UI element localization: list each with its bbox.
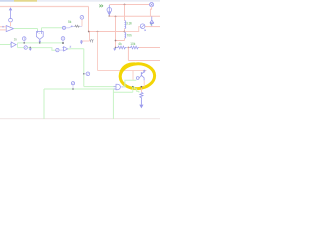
node arrow top xyxy=(81,40,83,42)
probe P4 circle xyxy=(71,82,74,85)
yellow ring overlap tail xyxy=(120,64,135,79)
wire to ground arrow xyxy=(140,99,142,105)
wire C3 to node xyxy=(66,26,72,27)
probe P5 circle xyxy=(86,72,90,76)
node below I2 xyxy=(108,15,110,17)
ammeter C1 xyxy=(24,46,27,49)
wire x89.5 bottom xyxy=(89,32,91,42)
node emitter xyxy=(141,86,143,88)
op-amp B1 pin marks xyxy=(38,30,43,33)
gate G1 body xyxy=(116,84,120,90)
ground arrow bottom xyxy=(139,105,143,109)
node under ring xyxy=(132,86,134,88)
transistor base circle xyxy=(136,77,139,80)
dark glyph eta xyxy=(90,40,93,43)
ground arrow right xyxy=(114,48,116,50)
op-amp A2 marks xyxy=(10,43,11,46)
node rail A end xyxy=(62,42,64,44)
node x88.5 y31.5 xyxy=(88,31,90,33)
ground arrow xyxy=(29,48,31,50)
probe P3 stub xyxy=(62,40,64,43)
wire node to resistor xyxy=(73,25,75,27)
op-amp A2 input wire xyxy=(0,44,11,46)
wire C1 to gnd node xyxy=(27,47,30,49)
wire rail y70.5 xyxy=(98,70,134,72)
wire right vertical x88.5 xyxy=(88,7,90,32)
wire vertical x97.5 xyxy=(97,32,99,71)
wire source to rail16 xyxy=(150,7,151,17)
coil small vertical xyxy=(140,92,143,99)
op-amp A1 input marks xyxy=(2,26,4,28)
wire probe column x82 xyxy=(81,19,83,26)
svg-text:70h: 70h xyxy=(127,33,133,37)
node rail A P2 xyxy=(23,42,25,44)
wire y26.6 xyxy=(145,26,160,28)
wire gate to base xyxy=(123,80,136,87)
wire corner down x44 xyxy=(43,89,45,119)
resistor R2 xyxy=(129,46,139,49)
node dot xyxy=(71,26,73,28)
op-amp A2 xyxy=(11,42,16,47)
label z xyxy=(70,46,72,47)
wire rail B mid xyxy=(31,48,56,51)
node x115.5 y47.5 xyxy=(115,47,117,49)
wire to dark glyph xyxy=(81,40,89,42)
current source I1 arrow xyxy=(9,8,12,19)
wire rail y31.5 xyxy=(89,31,125,33)
svg-text:3.3h: 3.3h xyxy=(126,22,132,26)
yellow highlight ring xyxy=(120,63,156,90)
AC source S2 xyxy=(140,24,145,29)
transistor Q1 xyxy=(141,70,145,81)
label D1 green tick xyxy=(150,24,151,26)
transistor emitter lead xyxy=(143,81,145,87)
svg-text:1k: 1k xyxy=(14,38,18,42)
wire box leg2 up xyxy=(42,28,63,31)
wire rail A xyxy=(18,42,63,44)
wire rail y16 xyxy=(109,15,160,17)
op-amp A1 input leads xyxy=(0,27,6,30)
wire L1 to node xyxy=(124,29,126,32)
node probe tap xyxy=(83,73,85,75)
gate G1 output xyxy=(121,86,123,88)
probe P4 stub xyxy=(72,85,74,89)
wire S2 left xyxy=(125,27,141,32)
wire rail y60.5 xyxy=(128,60,160,62)
probe P1 circle xyxy=(80,15,84,19)
wire bottom to gate input1 xyxy=(84,86,116,88)
wire staircase xyxy=(133,87,139,93)
transistor frame left xyxy=(132,71,134,81)
wire gate bottom down xyxy=(112,89,114,119)
current source I2 arrow xyxy=(108,5,111,15)
wire rail y40.5 xyxy=(116,40,125,42)
wire A2 out xyxy=(16,44,18,46)
wire vertical x124.5 xyxy=(124,5,126,21)
op-amp A3 marks xyxy=(63,48,64,50)
wire gate input2 long xyxy=(44,88,116,90)
wire L2 bottom xyxy=(124,38,126,40)
wire into box leg1 xyxy=(37,29,39,31)
resistor R1 xyxy=(116,46,126,49)
node x124.5 top xyxy=(124,4,126,6)
wire rail B xyxy=(18,47,25,49)
wire emitter down xyxy=(140,87,142,92)
svg-text:4k: 4k xyxy=(118,42,122,46)
green chevrons xyxy=(99,5,102,8)
wire down x83.8 xyxy=(83,49,85,87)
wire A1 output xyxy=(14,28,38,30)
node x124.5 y31.5 xyxy=(124,31,126,33)
svg-text:10k: 10k xyxy=(130,42,136,46)
inductor L2 xyxy=(125,32,126,38)
arrow down at 81.4 xyxy=(80,41,82,44)
resistor dark small xyxy=(75,25,80,27)
op-amp A3 xyxy=(64,47,68,51)
op-amp B1 output arrow xyxy=(39,40,41,43)
probe P2 stub xyxy=(23,40,25,42)
node x115.5 y40.5 xyxy=(115,40,117,42)
wire vertical x115.5 xyxy=(115,17,117,48)
wire top rail y6 xyxy=(0,6,89,8)
wire top right rail y4.3 xyxy=(109,4,149,6)
node y16 x115.5 xyxy=(115,16,117,18)
node junction x97.5 xyxy=(97,31,99,33)
wire I1 to opamp xyxy=(10,22,12,26)
wire resistor to probe column xyxy=(80,25,82,27)
probe P1 mark xyxy=(81,17,83,18)
node rail A B1 xyxy=(39,42,41,44)
op-amp A1 xyxy=(6,26,13,32)
wire down x128.4 xyxy=(127,48,129,61)
current source I1 circle xyxy=(9,18,13,22)
AC source S2 arrow xyxy=(141,25,146,31)
wire R2 to right edge xyxy=(139,47,160,49)
diode D1 xyxy=(150,17,154,27)
node P4 tap xyxy=(72,88,74,90)
ammeter C3 xyxy=(62,26,65,29)
transistor base wire xyxy=(139,76,141,79)
probe P5 stub xyxy=(85,73,86,75)
probe P2 circle xyxy=(22,37,26,41)
ammeter C2 xyxy=(56,48,59,51)
wire C2 to A3 xyxy=(59,48,64,50)
wire y92.3 xyxy=(113,91,132,93)
toolbar strip top xyxy=(0,0,160,2)
probe P3 circle xyxy=(61,37,65,41)
inductor L1 xyxy=(125,21,126,29)
gate G1 inputs xyxy=(114,87,117,89)
top right source circle X xyxy=(150,3,154,7)
wire A3 output xyxy=(68,48,84,50)
bottom window edge line xyxy=(0,118,160,119)
op-amp B1 pointing down xyxy=(36,32,43,40)
svg-text:5k: 5k xyxy=(68,20,72,24)
node gnd xyxy=(29,47,31,49)
transistor frame top xyxy=(133,70,147,72)
node R junction xyxy=(127,47,129,49)
wire A2 stub vertical xyxy=(17,43,19,48)
current source I2 circle xyxy=(107,8,112,13)
